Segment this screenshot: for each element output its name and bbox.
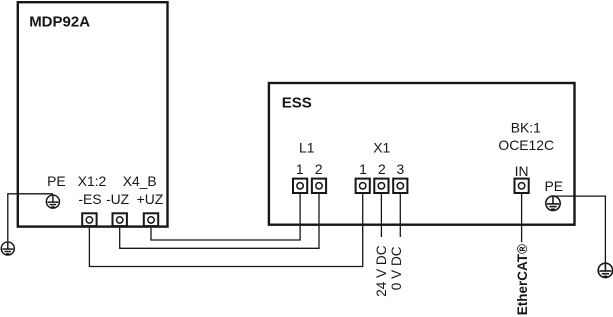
svg-text:-ES: -ES [78, 191, 101, 207]
wire ESS PE to external ground (right) [553, 196, 605, 263]
svg-text:BK:1: BK:1 [511, 119, 541, 135]
svg-text:+UZ: +UZ [137, 191, 164, 207]
svg-text:IN: IN [515, 163, 529, 179]
svg-text:2: 2 [315, 161, 323, 177]
svg-text:EtherCAT®: EtherCAT® [515, 244, 530, 315]
svg-text:-UZ: -UZ [106, 191, 130, 207]
box MDP92A [18, 2, 168, 226]
wire IN to EtherCAT [521, 194, 523, 242]
PE symbol (ESS) [546, 196, 560, 210]
wire -UZ to L1:2 [120, 194, 319, 248]
wire X1:3 to 0 V DC supply [399, 194, 401, 237]
svg-text:X1: X1 [373, 139, 390, 155]
svg-text:1: 1 [296, 161, 304, 177]
svg-text:PE: PE [545, 178, 564, 194]
wire X1:2 to 24 V DC supply [380, 194, 382, 237]
svg-text:PE: PE [47, 173, 66, 189]
svg-text:X4_B: X4_B [123, 173, 157, 189]
svg-text:X1:2: X1:2 [78, 173, 107, 189]
svg-text:0 V DC: 0 V DC [389, 246, 404, 290]
terminal X1:2 -ES [82, 213, 96, 226]
wire -ES to X1:1 [89, 194, 362, 267]
terminal L1:2 [312, 179, 326, 193]
terminal X4_B -UZ [113, 213, 127, 226]
svg-text:2: 2 [378, 161, 386, 177]
svg-text:ESS: ESS [282, 95, 312, 112]
terminal X1:2 (ESS) [374, 179, 388, 193]
svg-text:24 V DC: 24 V DC [374, 245, 389, 297]
terminal IN [515, 179, 529, 193]
terminal X1:3 [393, 179, 407, 193]
svg-text:MDP92A: MDP92A [29, 14, 90, 31]
svg-text:1: 1 [359, 161, 367, 177]
PE symbol (MDP92A) [46, 195, 59, 208]
wire PE to external ground (left) [8, 194, 53, 242]
svg-text:L1: L1 [299, 139, 315, 155]
svg-text:3: 3 [397, 161, 405, 177]
ground (external right) [598, 263, 612, 277]
terminal L1:1 [293, 179, 307, 193]
terminal X1:1 [356, 179, 370, 193]
svg-text:OCE12C: OCE12C [498, 137, 554, 153]
terminal X4_B +UZ [144, 213, 158, 226]
ground (external left) [1, 242, 14, 255]
wire +UZ to L1:1 [151, 194, 300, 240]
box ESS [269, 83, 575, 225]
